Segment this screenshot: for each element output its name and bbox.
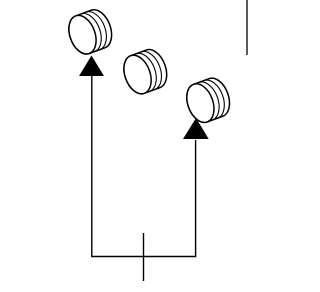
- arrowhead (right, pointing up at right disk): [183, 118, 209, 139]
- coin stack (top-left disk group): [64, 6, 117, 58]
- coin stack (right disk group): [182, 74, 235, 126]
- tick mark crossing bottom wire: [143, 233, 145, 281]
- arrowhead (left, pointing up at left disk): [79, 56, 104, 77]
- wire: left stem, bottom horizontal, right stem: [92, 75, 196, 257]
- vertical line top-right: [246, 0, 248, 55]
- coin stack (middle disk group): [119, 46, 172, 98]
